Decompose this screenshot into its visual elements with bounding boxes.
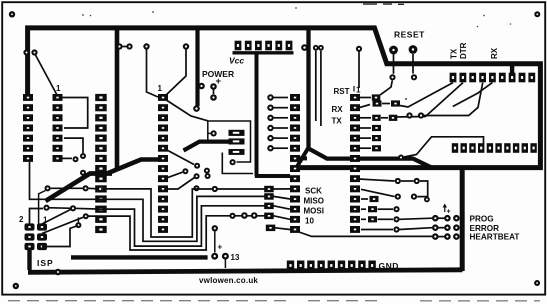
via pair r9 — [395, 178, 401, 184]
thick ISP ground stub — [27, 248, 31, 270]
wire IC3 r12 — [361, 208, 366, 210]
left via pair y188 — [45, 185, 51, 191]
LED 1 pads — [432, 215, 439, 222]
thick diagonal trace lower-left — [46, 174, 113, 202]
IC3 row4 wire and pad — [359, 127, 371, 129]
bar pad 2 — [229, 138, 245, 144]
thick fork to IC3 pin6 — [296, 156, 307, 160]
left via A — [43, 205, 49, 211]
serpentine trace B — [47, 206, 266, 246]
IC2 DIP-28 right column pads — [158, 94, 168, 233]
RX row wire and pads — [359, 105, 370, 108]
scan noise top — [363, 3, 404, 5]
via above 13 — [212, 225, 218, 231]
thick bottom ground bus — [28, 270, 463, 273]
serial diagonal wire 2 — [394, 83, 463, 117]
wire IC3 r14 to LED2 — [361, 229, 393, 231]
GND connector pads — [287, 261, 376, 271]
wire IC2 pin1 to box — [166, 100, 208, 121]
LED 2 pads — [432, 224, 439, 231]
svg-text:RX: RX — [490, 47, 499, 59]
svg-text:RST: RST — [334, 87, 350, 96]
svg-text:RX: RX — [332, 105, 344, 114]
IC3 DIP-28 left column pads — [290, 94, 300, 233]
wire pad to IC1 pin1 — [36, 55, 58, 95]
IC1 pin1 wrap wire — [60, 98, 88, 129]
svg-text:TX: TX — [332, 117, 343, 126]
IC2 DIP-28 left column pads — [95, 94, 107, 233]
page edge dashed line — [8, 300, 540, 302]
svg-text:MISO: MISO — [304, 197, 324, 206]
via pair r10 — [395, 194, 401, 200]
svg-text:PROG: PROG — [470, 215, 494, 224]
wire IC3 r9 to vias — [359, 179, 395, 181]
ISP header pads — [25, 223, 48, 250]
wires from via pair down — [315, 51, 317, 121]
mounting hole bottom-right — [534, 280, 540, 286]
LED 3 pads — [432, 233, 439, 240]
wire IC3-L pin14 to LED3 — [298, 232, 433, 237]
svg-text:1: 1 — [56, 84, 61, 93]
ISP wire 1 — [30, 209, 44, 224]
serpentine trace D — [101, 189, 265, 237]
LED plus mark — [444, 206, 446, 213]
RESET pad right — [409, 45, 418, 54]
svg-text:2: 2 — [19, 215, 24, 224]
left via B — [70, 205, 76, 211]
via on RST bus — [301, 44, 308, 51]
wire RST row — [359, 97, 371, 99]
IC3 row6 wire and pad — [359, 147, 371, 149]
thick LED common bar — [460, 167, 465, 271]
svg-text:MOSI: MOSI — [304, 207, 324, 216]
wire IC3 r10 to vias — [361, 189, 395, 196]
thick top power bus trace — [28, 28, 541, 168]
via column left of IC3 — [267, 94, 288, 151]
svg-text:+: + — [218, 242, 223, 251]
serial connector row2 pads — [452, 143, 537, 153]
IC1 DIP-14 right column pads — [53, 94, 63, 162]
row2 feed wire — [404, 137, 484, 157]
via pair on x117 trace — [116, 43, 122, 49]
TX row wire and pads — [359, 117, 371, 119]
IC3 DIP-28 right column pads — [350, 94, 360, 233]
row13 pad and wire — [266, 225, 276, 232]
via row2 left — [398, 155, 404, 161]
wire IC1 pin4 area — [64, 138, 83, 153]
via left of box — [211, 130, 217, 136]
IC1 DIP-14 left column pads — [23, 94, 33, 162]
via x359 with wire — [356, 46, 362, 52]
ISP wire 2 — [42, 210, 71, 225]
thick fork to IC3 pin7 — [297, 148, 309, 168]
mounting hole top-right — [534, 11, 540, 17]
serpentine end pads — [264, 186, 290, 220]
scan noise dots right — [483, 15, 485, 17]
serial diagonal wire 1 — [397, 83, 453, 107]
via x186 with wire to IC2 pin1 — [183, 43, 189, 49]
svg-text:RESET: RESET — [394, 30, 425, 40]
thick Vcc vertical trace x256 — [255, 53, 290, 176]
mounting hole top-left — [9, 11, 15, 17]
svg-text:ISP: ISP — [37, 258, 54, 268]
via pair mid — [406, 112, 412, 118]
left via C upper — [83, 213, 89, 219]
vias on serpentine A — [229, 213, 235, 219]
wire IC3 r13 to LED1 — [361, 218, 366, 220]
ISP wire 3 — [42, 217, 83, 233]
svg-text:vwlowen.co.uk: vwlowen.co.uk — [199, 276, 258, 285]
serial diagonal wire 4 — [453, 83, 493, 107]
riser from bus to serial pad — [510, 64, 514, 74]
svg-text:GND: GND — [379, 261, 399, 271]
via on thick diagonal — [80, 170, 86, 176]
thick short bar y257 — [71, 255, 208, 259]
svg-text:+: + — [447, 209, 451, 216]
svg-text:Vcc: Vcc — [229, 56, 244, 66]
mounting hole bottom-left — [13, 283, 19, 289]
elbow wire r9-r10 — [417, 181, 428, 197]
serpentine trace A — [89, 216, 266, 250]
crystal via cluster — [182, 168, 188, 174]
svg-text:13: 13 — [231, 253, 240, 262]
thick vertical trace x197 to pad — [195, 27, 199, 106]
IC3 row5 wire and pad — [359, 137, 371, 139]
via x146 wire to IC2 pin1 — [143, 43, 149, 49]
wire IC3 r11 — [361, 198, 368, 200]
via right of IC1 pin7 — [73, 156, 79, 162]
serpentine trace C — [30, 162, 266, 241]
bar pad 1 — [229, 130, 245, 136]
left via D — [75, 222, 81, 228]
svg-text:1: 1 — [356, 86, 361, 95]
svg-text:10: 10 — [305, 217, 314, 226]
crystal wires — [166, 150, 194, 165]
svg-text:HEARTBEAT: HEARTBEAT — [470, 233, 520, 242]
svg-text:1: 1 — [158, 84, 163, 93]
svg-text:SCK: SCK — [305, 186, 322, 195]
via terminating x197 trace — [193, 105, 200, 112]
serial connector row1 pads — [450, 73, 536, 83]
POWER pads — [198, 83, 205, 90]
thick diagonal trace to IC2 pin — [107, 160, 161, 174]
pads 13 — [211, 253, 218, 260]
RESET pad left — [389, 46, 398, 55]
thick RST trace from bus — [309, 28, 433, 168]
via pair right of RST bus — [313, 45, 319, 51]
junction via on ground bus — [55, 269, 62, 276]
pads on thick left trace — [23, 49, 29, 55]
Vcc header bus bar — [233, 51, 294, 54]
Vcc header pads — [235, 41, 293, 51]
ISP wire 4 — [42, 226, 78, 247]
svg-text:TX: TX — [450, 48, 459, 59]
thick trace to crystal bar — [184, 142, 231, 151]
via under box — [230, 159, 236, 165]
bar pad 3 — [229, 149, 245, 155]
component outline box — [208, 121, 251, 162]
via on serpentine D — [212, 186, 218, 192]
svg-text:DTR: DTR — [459, 42, 468, 59]
thick vertical trace x117 — [115, 27, 120, 171]
